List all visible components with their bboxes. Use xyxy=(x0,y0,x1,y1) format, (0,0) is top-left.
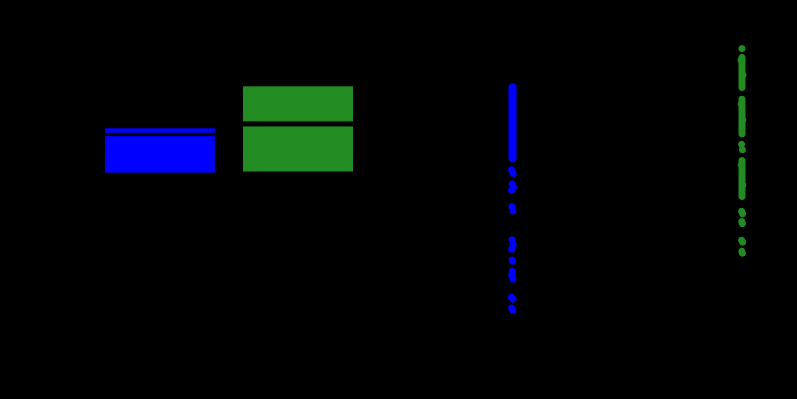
blue dot h xyxy=(508,305,516,314)
blue dot g xyxy=(508,294,517,303)
blue dot pair a xyxy=(508,166,517,177)
green column 1 xyxy=(738,54,747,91)
median line box 2 xyxy=(243,121,353,126)
boxplot box 1 (blue) xyxy=(105,128,215,172)
strip plot group 1 (blue dots) dense column xyxy=(509,83,517,162)
green dot pair a xyxy=(738,141,746,153)
blue dot pair c xyxy=(508,203,516,214)
green dot pair e xyxy=(738,248,746,257)
green dot pair b xyxy=(738,208,746,218)
green dot pair d xyxy=(738,237,746,246)
boxplot box 2 (green) xyxy=(243,86,353,171)
blue dot cluster f xyxy=(508,268,516,283)
median line box 1 xyxy=(105,133,215,136)
green dot pair c xyxy=(738,218,746,227)
blue dot cluster b xyxy=(508,180,517,194)
green column 3 xyxy=(738,157,747,200)
green column 2 xyxy=(738,96,747,138)
blue dot e xyxy=(509,257,517,265)
strip plot group 2 (green dots) top dot xyxy=(739,45,746,52)
blue dot cluster d xyxy=(508,236,517,252)
